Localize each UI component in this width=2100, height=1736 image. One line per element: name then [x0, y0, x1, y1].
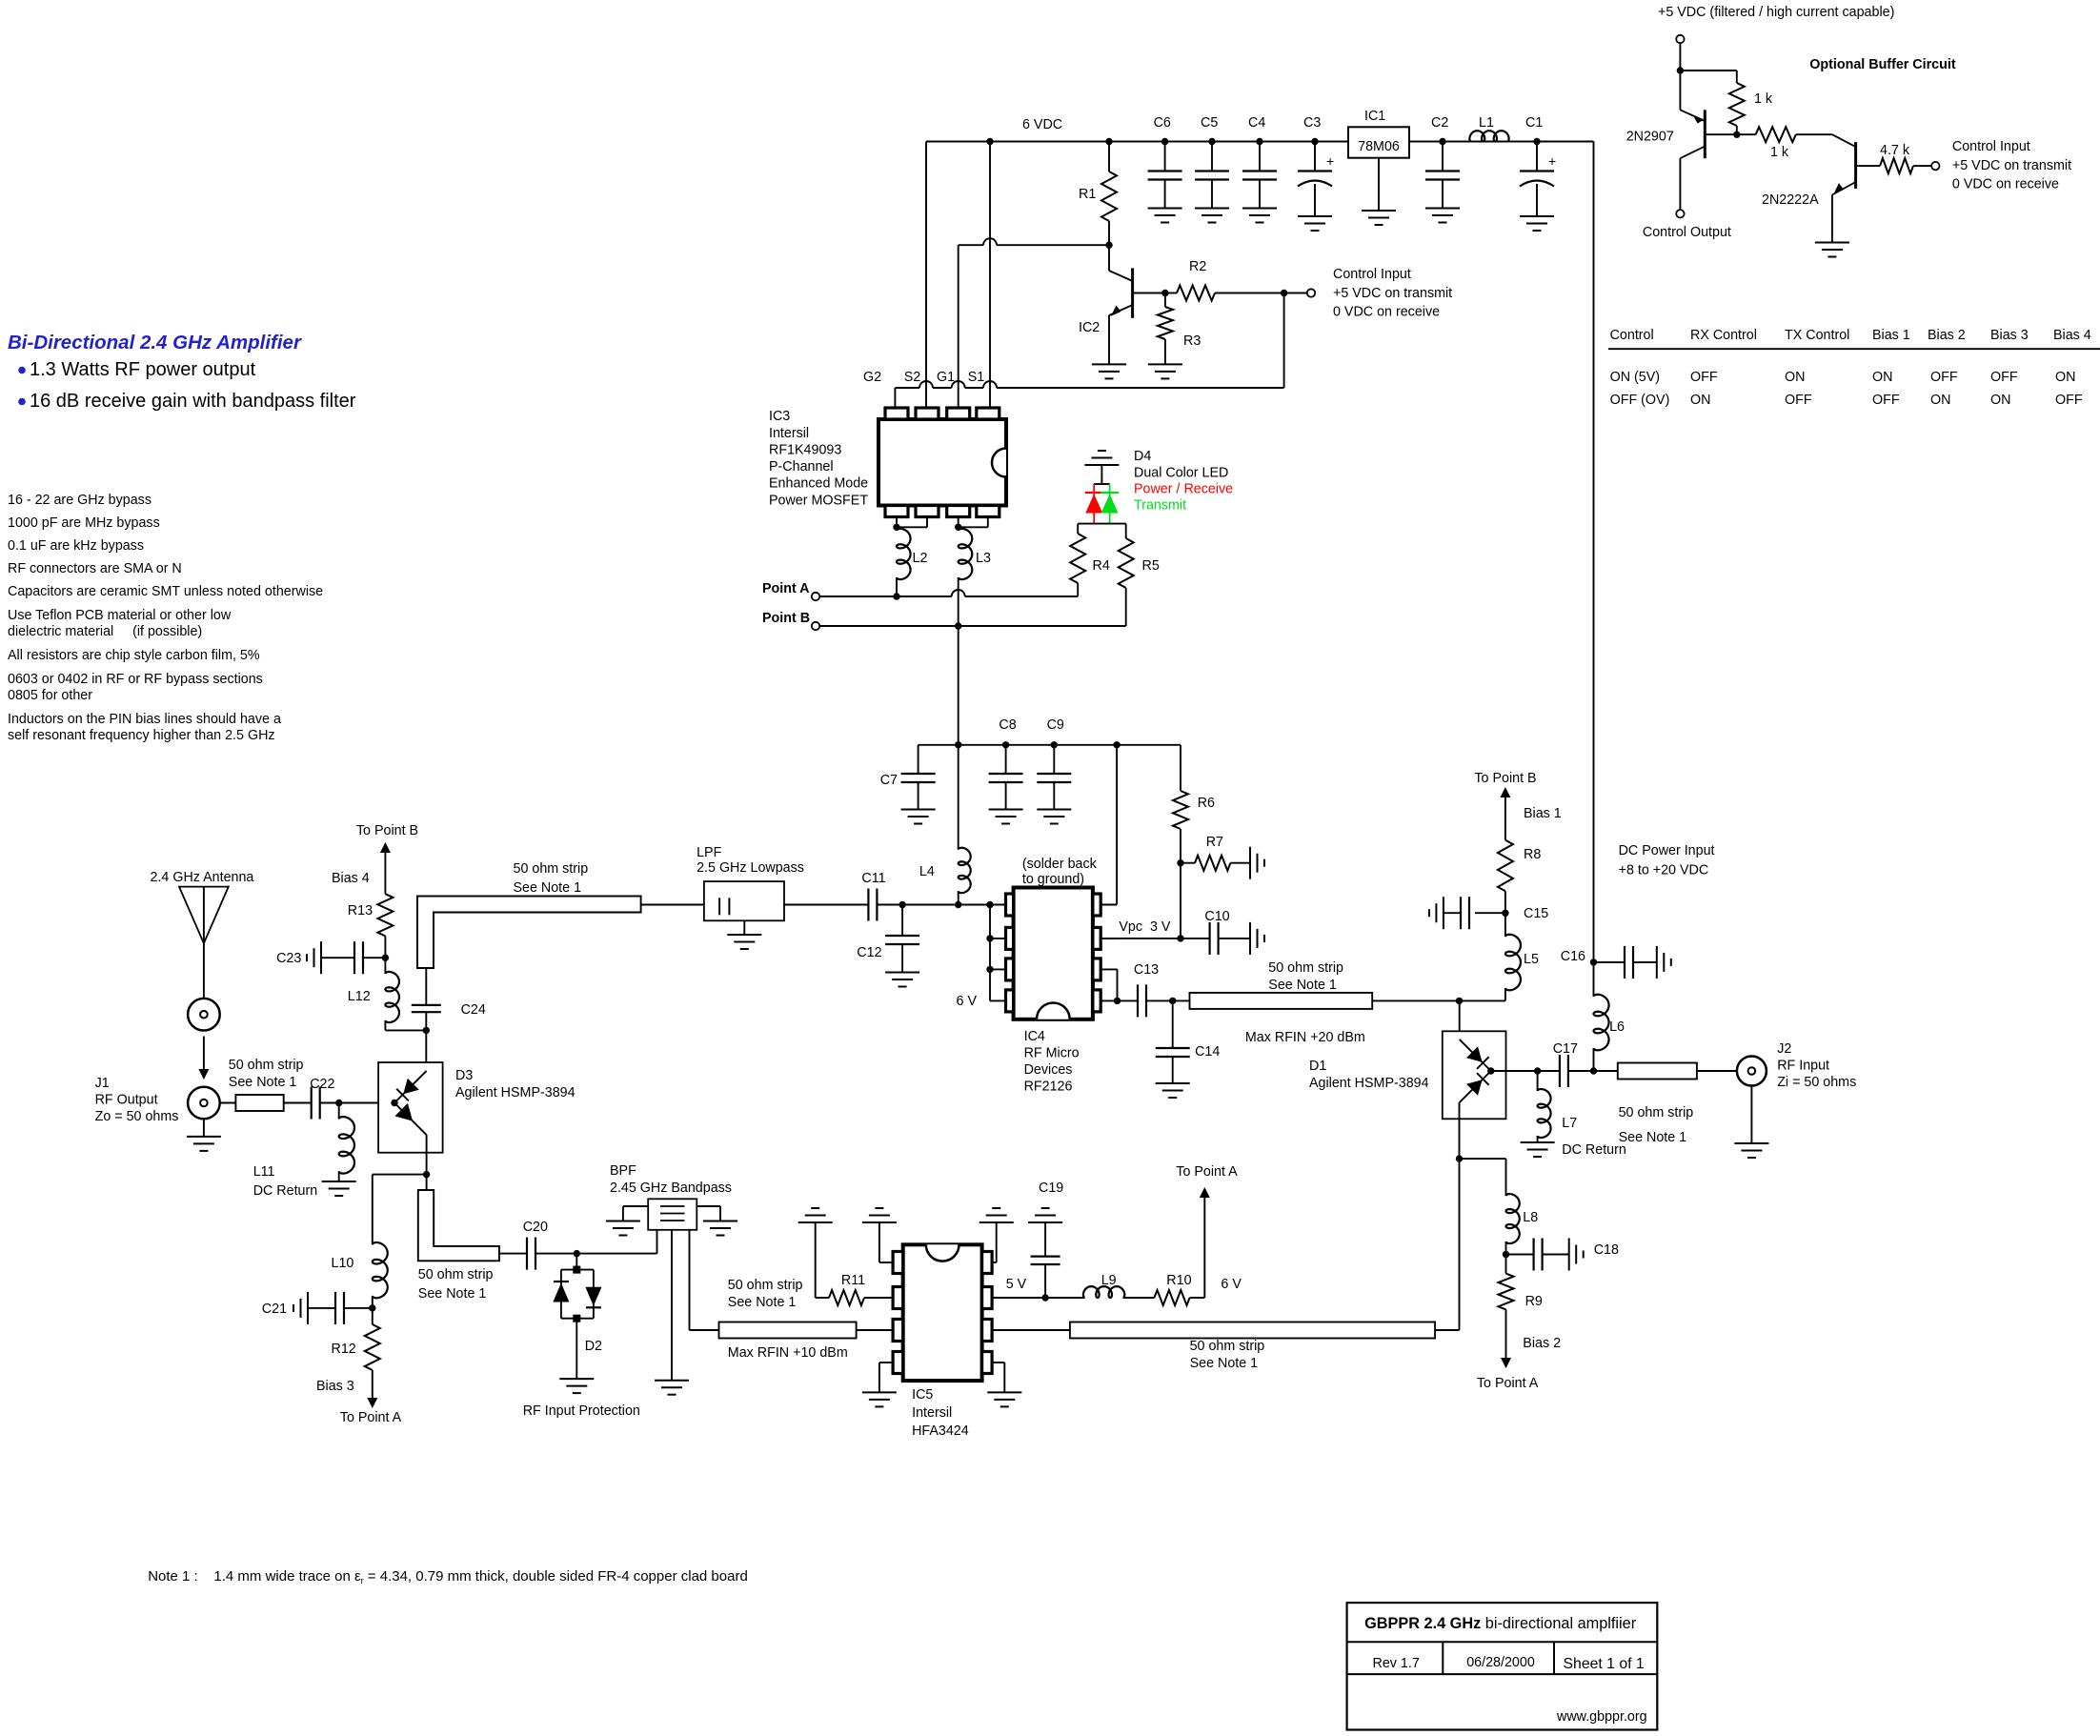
IC3 top pad 2: [916, 408, 939, 419]
wire J1 ground lead: [203, 1119, 205, 1137]
antenna connector: [188, 999, 220, 1031]
svg-text:Intersil: Intersil: [769, 426, 809, 441]
ground above R11 (inverted): [798, 1208, 833, 1222]
wire 6VDC rail left segment: [926, 141, 1348, 143]
svg-text:RX Control: RX Control: [1690, 328, 1757, 343]
wire L3 down to Point B (through hop): [958, 577, 959, 626]
node D1 bottom junction: [1456, 1155, 1463, 1161]
label Max RFIN +10 dBm: [728, 1345, 848, 1361]
IC4 left pad 1: [1006, 894, 1014, 916]
wire IC3 pad6 L-bend: [897, 517, 927, 528]
wire D3 bottom lead: [426, 1135, 428, 1175]
wire IC5 pin5 to ground: [992, 1363, 1004, 1392]
svg-text:C4: C4: [1248, 115, 1265, 131]
capacitor C8: [989, 717, 1023, 810]
svg-text:D3: D3: [455, 1068, 473, 1083]
label 50 ohm strip IC4 out: [1268, 960, 1343, 993]
svg-text:R11: R11: [841, 1273, 865, 1288]
ground under IC5 pin5: [987, 1392, 1021, 1406]
label Bias 1: [1524, 806, 1562, 821]
wire S2 vertical: [925, 142, 927, 409]
svg-text:C11: C11: [861, 871, 885, 886]
svg-text:ON: ON: [1690, 393, 1710, 408]
label LPF: [697, 845, 804, 876]
capacitor C3 (electrolytic): [1298, 115, 1334, 216]
resistor R9: [1499, 1255, 1543, 1362]
svg-text:+5 VDC on transmit: +5 VDC on transmit: [1333, 286, 1452, 301]
svg-text:C1: C1: [1525, 115, 1543, 131]
svg-text:Vpc 3 V: Vpc 3 V: [1119, 919, 1171, 935]
svg-text:IC4: IC4: [1024, 1029, 1045, 1044]
svg-text:IC5: IC5: [912, 1387, 933, 1403]
wire D1 bottom lead: [1459, 1102, 1461, 1159]
wire 6VDC rail right segment: [1409, 141, 1594, 143]
svg-text:L3: L3: [976, 551, 991, 566]
svg-text:to ground): to ground): [1022, 872, 1084, 887]
terminal control input: [1284, 289, 1316, 296]
svg-text:50 ohm strip: 50 ohm strip: [418, 1267, 494, 1282]
svg-text:To Point B: To Point B: [1474, 771, 1536, 786]
svg-text:R12: R12: [332, 1342, 356, 1357]
label S1: [968, 370, 985, 385]
svg-text:+: +: [1326, 153, 1334, 169]
inductor L6: [1594, 995, 1625, 1071]
svg-text:2.45 GHz Bandpass: 2.45 GHz Bandpass: [610, 1181, 732, 1196]
svg-text:See Note 1: See Note 1: [229, 1075, 297, 1090]
wire D2 to ground: [575, 1319, 577, 1379]
label D4: [1134, 449, 1233, 514]
ground under C12: [885, 973, 919, 987]
svg-text:L2: L2: [913, 551, 928, 566]
node D3 center: [391, 1100, 397, 1106]
svg-text:S1: S1: [968, 370, 985, 385]
svg-text:C2: C2: [1431, 115, 1448, 131]
node R6/R7: [1177, 859, 1183, 866]
label Vpc 3 V: [1119, 919, 1171, 935]
svg-text:See Note 1: See Note 1: [1268, 978, 1337, 993]
svg-text:L4: L4: [919, 864, 935, 879]
svg-text:50 ohm strip: 50 ohm strip: [1268, 960, 1343, 976]
IC3 top pad 4: [977, 408, 1000, 419]
svg-text:J1: J1: [95, 1076, 110, 1091]
resistor R10: [1154, 1273, 1191, 1305]
resistor R11: [816, 1222, 893, 1305]
resistor R1: [1079, 142, 1117, 246]
svg-text:R10: R10: [1166, 1273, 1191, 1288]
ground right of C18 (sideways): [1569, 1239, 1584, 1271]
label +5 VDC (filtered / high current capable): [1658, 5, 1894, 20]
svg-text:Point A: Point A: [762, 581, 810, 596]
ground under BPF: [655, 1381, 689, 1395]
svg-text:self resonant frequency higher: self resonant frequency higher than 2.5 …: [8, 728, 275, 743]
ground under C9: [1037, 810, 1071, 824]
svg-text:Inductors on the PIN bias line: Inductors on the PIN bias lines should h…: [8, 712, 281, 727]
svg-text:C13: C13: [1134, 962, 1159, 978]
capacitor C10: [1181, 909, 1250, 955]
ground under R3: [1148, 364, 1182, 378]
label 6 V (IC4): [957, 994, 978, 1009]
svg-text:2.4 GHz Antenna: 2.4 GHz Antenna: [151, 870, 254, 885]
wire IC5 pin3 stub: [857, 1329, 894, 1331]
label D2: [585, 1339, 602, 1354]
svg-text:0.1 uF are kHz bypass: 0.1 uF are kHz bypass: [8, 538, 144, 554]
ground under IC2 emitter: [1092, 364, 1126, 378]
svg-text:78M06: 78M06: [1358, 139, 1400, 154]
svg-text:C8: C8: [999, 717, 1016, 733]
wire L3 node down to C7 bus: [958, 626, 959, 745]
wire G2 drop to pad: [894, 388, 896, 408]
wire IC5 pin8 to ground: [992, 1222, 997, 1262]
IC5 left pad 2: [893, 1287, 903, 1309]
svg-text:L12: L12: [348, 989, 371, 1004]
svg-text:See Note 1: See Note 1: [1190, 1356, 1259, 1371]
svg-text:dielectric material (if po: dielectric material (if possible): [8, 624, 202, 639]
svg-text:OFF: OFF: [1872, 393, 1900, 408]
svg-text:Agilent HSMP-3894: Agilent HSMP-3894: [455, 1085, 575, 1100]
svg-text:C24: C24: [461, 1002, 486, 1018]
wire C24 to D3: [425, 1030, 427, 1071]
resistor R4: [1070, 524, 1110, 596]
svg-text:R7: R7: [1206, 835, 1223, 850]
svg-text:www.gbppr.org: www.gbppr.org: [1556, 1709, 1647, 1725]
wire LED bottom bus: [1078, 523, 1126, 525]
node rail junction C5: [1208, 138, 1215, 145]
wire D1 top lead: [1459, 1000, 1461, 1040]
diode D2 right half: [585, 1270, 601, 1319]
svg-text:Bias 2: Bias 2: [1523, 1336, 1561, 1351]
label IC4: [1024, 1029, 1080, 1095]
terminal buffer control input: [1931, 162, 1939, 170]
ground under L11: [322, 1181, 356, 1196]
node buffer +5 junction: [1677, 67, 1684, 73]
svg-text:OFF: OFF: [1690, 370, 1718, 385]
IC4 right pad 6: [1093, 959, 1100, 980]
svg-text:50 ohm strip: 50 ohm strip: [728, 1278, 803, 1293]
svg-text:0 VDC on receive: 0 VDC on receive: [1333, 305, 1440, 320]
svg-text:Bias 3: Bias 3: [316, 1379, 354, 1394]
ground under IC5 pin4: [862, 1392, 897, 1406]
node rail junction S1: [986, 138, 993, 145]
svg-text:See Note 1: See Note 1: [418, 1286, 487, 1302]
wire IC4 pin7 Vpc stub: [1100, 938, 1117, 939]
svg-text:Optional Buffer Circuit: Optional Buffer Circuit: [1809, 57, 1956, 72]
wire G2 control line (hops S2,G1,S1): [895, 381, 1283, 388]
wire Point A line (hops L3): [819, 590, 1078, 596]
wire BPF right pin: [697, 1206, 720, 1221]
node D1 center: [1487, 1067, 1494, 1074]
svg-text:RF connectors are SMA or N: RF connectors are SMA or N: [8, 561, 182, 576]
svg-text:1000 pF are MHz bypass: 1000 pF are MHz bypass: [8, 515, 160, 531]
wire strip to C20: [499, 1253, 527, 1255]
svg-text:P-Channel: P-Channel: [769, 459, 834, 474]
svg-text:Control Output: Control Output: [1643, 225, 1731, 240]
label L7 DC Return: [1562, 1116, 1626, 1158]
svg-text:DC Power Input: DC Power Input: [1619, 843, 1715, 858]
svg-text:1 k: 1 k: [1770, 145, 1789, 160]
ground under J2: [1734, 1143, 1768, 1158]
node bus/L3: [955, 741, 961, 748]
control truth table: [1608, 328, 2100, 408]
svg-text:Bias 4: Bias 4: [332, 871, 370, 886]
wire Vpc line: [1100, 938, 1181, 939]
node control input junction: [1281, 290, 1287, 296]
ground under IC1: [1362, 211, 1396, 225]
ground above C19 (inverted): [1028, 1208, 1062, 1222]
svg-text:(solder back: (solder back: [1022, 857, 1098, 872]
wire IC4 left pin bus: [989, 905, 991, 1001]
title: Bi-Directional 2.4 GHz Amplifier: [8, 332, 302, 353]
svg-text:Sheet 1 of 1: Sheet 1 of 1: [1564, 1656, 1645, 1672]
svg-text:50 ohm strip: 50 ohm strip: [1619, 1105, 1694, 1120]
svg-text:R2: R2: [1189, 259, 1206, 274]
capacitor C6: [1148, 115, 1182, 209]
wire BPF left pin: [623, 1206, 648, 1221]
svg-text:6 V: 6 V: [957, 994, 978, 1009]
svg-text:Intersil: Intersil: [912, 1405, 952, 1421]
svg-text:6 VDC: 6 VDC: [1022, 117, 1062, 132]
svg-text:Bi-Directional 2.4 GHz Amplifi: Bi-Directional 2.4 GHz Amplifier: [8, 332, 302, 353]
svg-text:RF2126: RF2126: [1024, 1080, 1073, 1095]
node Vpc/C10: [1177, 935, 1183, 941]
label 6 V (IC5): [1221, 1277, 1242, 1292]
LED D4 green half: [1100, 484, 1119, 524]
wire IC5 pin7 5V line: [992, 1297, 1085, 1299]
inductor L4: [919, 745, 971, 905]
svg-text:S2: S2: [904, 370, 921, 385]
capacitor C4: [1242, 115, 1277, 209]
resistor R7: [1181, 835, 1250, 871]
label L11 DC Return: [253, 1164, 318, 1199]
node C23 tap: [382, 955, 389, 961]
wire IC5 pin4 to ground: [879, 1363, 893, 1392]
svg-text:G2: G2: [863, 370, 881, 385]
ground under LPF: [727, 935, 761, 949]
bullet: 16 dB receive gain with bandpass filter: [18, 391, 356, 412]
svg-text:C6: C6: [1154, 115, 1171, 131]
svg-text:0 VDC on receive: 0 VDC on receive: [1952, 177, 2059, 192]
wire IC5 pin1 to ground: [879, 1222, 893, 1262]
50 ohm strip (IC4 output): [1190, 993, 1373, 1009]
svg-text:RF Input: RF Input: [1777, 1059, 1829, 1074]
wire right DC bus vertical: [1593, 142, 1595, 998]
label 50 ohm strip J1: [229, 1058, 304, 1090]
wire IC4 pin5 to C13: [1100, 999, 1138, 1001]
ground under C5: [1195, 209, 1229, 223]
svg-text:C14: C14: [1195, 1044, 1220, 1060]
wire IC4 pin4 stub: [990, 999, 1006, 1001]
wire IC3 pad5 down: [896, 517, 898, 528]
IC3 bottom pad 8: [977, 506, 1000, 517]
node rail junction C1: [1533, 138, 1540, 145]
node IC4 pin2: [986, 935, 993, 941]
svg-text:C12: C12: [857, 945, 881, 960]
label solder back to ground: [1022, 857, 1098, 887]
ground right of BPF: [703, 1221, 737, 1236]
wire R7 node down to Vpc: [1180, 863, 1181, 939]
svg-text:Control: Control: [1610, 328, 1654, 343]
svg-text:IC1: IC1: [1364, 109, 1385, 124]
svg-text:To Point B: To Point B: [356, 823, 418, 838]
node rail junction R1: [1105, 138, 1112, 145]
svg-text:C3: C3: [1303, 115, 1321, 131]
wire R10 to Point A riser: [1190, 1191, 1205, 1298]
node rail junction C4: [1256, 138, 1262, 145]
svg-text:R4: R4: [1093, 558, 1110, 574]
svg-text:J2: J2: [1777, 1041, 1791, 1057]
svg-text:L5: L5: [1524, 952, 1539, 967]
wire collector junction to G1 (hops S1): [959, 238, 1109, 245]
IC5 right pad 6: [982, 1320, 993, 1342]
svg-text:C7: C7: [880, 773, 898, 788]
label RF Input Protection: [523, 1403, 640, 1419]
amplifier IC4 body: [1014, 888, 1093, 1019]
capacitor C22: [310, 1077, 334, 1120]
svg-text:Note 1 : 1.4 mm wide trace: Note 1 : 1.4 mm wide trace on εr = 4.34,…: [148, 1568, 748, 1585]
svg-text:R3: R3: [1183, 333, 1201, 349]
node D2 bottom (square): [573, 1315, 580, 1322]
wire C7-C9 bus: [919, 744, 1181, 746]
svg-text:OFF: OFF: [1930, 370, 1958, 385]
node IC4 pin3: [986, 966, 993, 973]
LED D4 red half: [1085, 484, 1103, 524]
label 5 V: [1006, 1277, 1027, 1292]
wire strip to LPF: [641, 904, 704, 906]
svg-text:Transmit: Transmit: [1134, 498, 1186, 514]
svg-text:Use Teflon PCB material or oth: Use Teflon PCB material or other low: [8, 608, 232, 623]
wire pin8 riser: [1100, 745, 1117, 905]
ground under C1: [1520, 216, 1554, 231]
ground under 2N2222A: [1815, 243, 1849, 257]
svg-text:C9: C9: [1047, 717, 1064, 733]
svg-text:G1: G1: [937, 370, 955, 385]
svg-text:C22: C22: [310, 1077, 334, 1092]
wire D3 junction to strip: [426, 1175, 428, 1190]
resistor 1k (vertical): [1680, 71, 1773, 134]
wire LPF to C11: [784, 904, 868, 906]
label IC5: [912, 1387, 969, 1439]
svg-text:RF Input Protection: RF Input Protection: [523, 1403, 640, 1419]
node bus C8: [1002, 741, 1009, 748]
wire D4 ground stub: [1094, 465, 1109, 484]
wire L9 to R10: [1123, 1297, 1155, 1299]
diode D1 box: [1443, 1031, 1506, 1119]
label control input (top): [1333, 267, 1452, 320]
node C15 tap: [1502, 910, 1508, 917]
wire C20 to BPF: [535, 1253, 657, 1255]
node L7 tap: [1534, 1067, 1541, 1074]
ground right of C10 (sideways): [1250, 922, 1264, 955]
svg-text:Max RFIN +10 dBm: Max RFIN +10 dBm: [728, 1345, 848, 1361]
capacitor C9: [1037, 717, 1071, 810]
svg-text:L6: L6: [1609, 1019, 1625, 1035]
svg-text:L1: L1: [1479, 115, 1494, 131]
bullet: 1.3 Watts RF power output: [18, 359, 255, 380]
capacitor C21: [262, 1292, 373, 1324]
node L3 top: [955, 524, 961, 531]
inductor L1: [1469, 115, 1508, 142]
svg-text:C20: C20: [523, 1220, 548, 1235]
capacitor C14: [1156, 1000, 1221, 1083]
svg-text:1.3 Watts RF power output: 1.3 Watts RF power output: [30, 359, 256, 380]
svg-text:R6: R6: [1198, 796, 1215, 811]
svg-text:16 - 22 are GHz bypass: 16 - 22 are GHz bypass: [8, 493, 151, 508]
node C21 tap: [369, 1304, 375, 1311]
node 2N2907 base junction: [1733, 131, 1740, 138]
ground above IC5 pin8 (inverted): [979, 1208, 1014, 1222]
wire IC3 pad7 down: [958, 517, 959, 528]
svg-text:ON: ON: [1930, 393, 1950, 408]
svg-text:Bias 3: Bias 3: [1990, 328, 2029, 343]
wire IC3 pad8 L-bend: [959, 517, 988, 528]
IC4 left pad 4: [1006, 990, 1014, 1012]
ground under C4: [1242, 209, 1277, 223]
svg-text:2.5 GHz Lowpass: 2.5 GHz Lowpass: [697, 860, 804, 876]
resistor R13: [348, 894, 394, 958]
svg-text:ON: ON: [1872, 370, 1892, 385]
node bus pin8: [1113, 741, 1120, 748]
label 50 ohm strip J2: [1619, 1105, 1694, 1145]
capacitor C1 (electrolytic): [1520, 115, 1556, 216]
svg-text:L8: L8: [1523, 1210, 1538, 1225]
svg-text:RF Micro: RF Micro: [1024, 1046, 1080, 1061]
ground under C6: [1148, 209, 1182, 223]
svg-text:Agilent HSMP-3894: Agilent HSMP-3894: [1309, 1076, 1429, 1091]
svg-text:R13: R13: [348, 903, 373, 918]
ground under C2: [1425, 209, 1460, 223]
wire strip4 riser: [1435, 1159, 1459, 1330]
inductor L12: [348, 958, 427, 1030]
svg-text:Power / Receive: Power / Receive: [1134, 482, 1233, 497]
IC3 top pad 3: [947, 408, 970, 419]
terminal Point A: [812, 593, 819, 600]
ground above IC5 pin1 (inverted): [862, 1208, 897, 1222]
wire C17 to strip: [1568, 1070, 1618, 1072]
svg-text:50 ohm strip: 50 ohm strip: [229, 1058, 304, 1073]
wire D1 bottom to L8: [1460, 1159, 1506, 1196]
inductor L8: [1506, 1194, 1539, 1254]
svg-text:OFF: OFF: [2055, 393, 2083, 408]
connector J2: [1697, 1057, 1767, 1086]
resistor R8: [1498, 840, 1541, 914]
label Point A: [762, 581, 810, 596]
label D1: [1309, 1059, 1429, 1091]
wire D2 top lead: [575, 1254, 577, 1270]
inductor L5: [1505, 913, 1539, 1000]
label G1: [937, 370, 955, 385]
label Bias 4: [332, 871, 370, 886]
diode D1 upper: [1460, 1040, 1491, 1071]
svg-text:50 ohm strip: 50 ohm strip: [514, 861, 589, 877]
label 50 ohm strip BPF-IC5: [728, 1278, 803, 1310]
svg-text:L10: L10: [332, 1256, 354, 1271]
IC4 right pad 7: [1093, 927, 1100, 949]
resistor 1k (horizontal): [1737, 127, 1796, 160]
ground above D4 (inverted): [1084, 451, 1119, 465]
note 1 text: [148, 1568, 748, 1585]
capacitor C13: [1134, 962, 1159, 1017]
svg-text:Zo = 50 ohms: Zo = 50 ohms: [95, 1109, 179, 1124]
ground under C7: [901, 810, 936, 824]
svg-text:R9: R9: [1525, 1294, 1543, 1309]
diode D3 box: [378, 1062, 443, 1153]
IC5 right pad 5: [982, 1352, 993, 1374]
wire C13 to strip: [1146, 999, 1190, 1001]
wire D2 top bus: [561, 1269, 594, 1271]
label Point B: [762, 611, 810, 626]
svg-text:6 V: 6 V: [1221, 1277, 1242, 1292]
capacitor C7: [880, 745, 936, 810]
ground left of C21 (sideways): [293, 1292, 308, 1324]
